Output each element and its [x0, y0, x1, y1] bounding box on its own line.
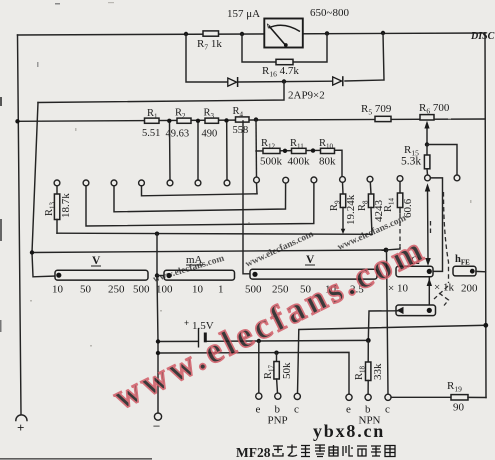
scan artifacts: [0, 458, 152, 459]
wire NPN c to R19: [391, 396, 451, 398]
wire R19 to right border: [468, 396, 486, 398]
svg-text:157 μA: 157 μA: [227, 8, 260, 20]
node meter left junction: [184, 32, 188, 36]
contact circle 4: [139, 180, 145, 186]
svg-text:650~800: 650~800: [310, 7, 349, 19]
svg-text:18.7k: 18.7k: [60, 193, 72, 218]
svg-text:+: +: [184, 318, 189, 328]
contact circle 5: [167, 180, 173, 186]
node R2-R3 junction: [196, 119, 200, 123]
terminal NPN e: [346, 394, 352, 400]
node battery rail left: [156, 339, 160, 343]
contact circle wiper: [425, 175, 431, 181]
svg-text:250: 250: [108, 284, 125, 296]
svg-text:+: +: [17, 420, 24, 435]
svg-text:50: 50: [80, 284, 92, 296]
wire bus C contact2 to contact10: [86, 183, 314, 226]
svg-text:558: 558: [233, 125, 249, 136]
svg-text:R4: R4: [233, 106, 244, 119]
node diode center junction: [282, 79, 286, 83]
node bus D x157 junction: [155, 232, 159, 236]
node bars link junction: [155, 273, 159, 277]
svg-text:33k: 33k: [372, 363, 384, 380]
wire wiper to contact S: [427, 145, 457, 176]
wire R6 wiper arm: [426, 125, 428, 145]
resistor R5: [375, 116, 391, 121]
svg-text:10: 10: [192, 284, 204, 296]
switch bar ohm: [396, 266, 433, 276]
resistor R10: [321, 148, 335, 153]
contact circle right column: [454, 175, 460, 181]
switch bar hFE: [453, 266, 476, 276]
svg-text:ybx8.cn: ybx8.cn: [313, 421, 385, 441]
terminal plus jack: [16, 415, 27, 421]
svg-text:10: 10: [52, 284, 64, 296]
svg-text:500k: 500k: [260, 156, 283, 168]
wire bus B contact3 to contact9: [114, 183, 286, 212]
battery BT 1.5V: [198, 328, 200, 348]
svg-text:www.elecfans.com: www.elecfans.com: [244, 229, 315, 269]
svg-text:R9: R9: [329, 200, 342, 211]
resistor R12: [263, 148, 280, 153]
svg-text:c: c: [294, 404, 299, 416]
contact circle 12: [367, 176, 373, 182]
resistor R14 60.6: [399, 182, 401, 194]
svg-text:R1: R1: [147, 108, 158, 121]
wire 2AP9 lower bus: [38, 82, 284, 103]
meter M 157uA: [264, 19, 303, 48]
resistor R19 90: [451, 395, 468, 400]
resistor R4: [236, 117, 250, 122]
svg-text:R18: R18: [354, 365, 367, 380]
resistor R1: [145, 118, 160, 123]
terminal NPN c: [385, 394, 391, 400]
svg-text:V: V: [92, 255, 101, 267]
wire contact6 stem: [197, 124, 199, 181]
svg-text:19.24k: 19.24k: [345, 194, 357, 225]
node R12-R11 junction: [283, 149, 287, 153]
svg-text:PNP: PNP: [268, 415, 288, 427]
contact circle 6: [195, 180, 201, 186]
svg-text:R7 1k: R7 1k: [197, 38, 222, 52]
svg-text:90: 90: [453, 402, 465, 414]
terminal PNP c: [294, 393, 300, 399]
resistor R6 potentiometer: [420, 115, 434, 120]
wire PNP e stem: [258, 341, 260, 393]
svg-text:R11: R11: [290, 138, 304, 151]
svg-text:c: c: [385, 404, 390, 416]
svg-text:5.3k: 5.3k: [401, 156, 421, 168]
node right border junction: [483, 323, 488, 328]
node x1k R18 junction: [366, 338, 371, 343]
node wiper junction: [425, 142, 429, 146]
wire hFE to right border: [476, 270, 486, 272]
resistor R7: [203, 31, 219, 36]
diode D1 2AP9: [228, 77, 238, 87]
svg-text:R8: R8: [357, 200, 370, 211]
resistor R8 4243: [369, 182, 372, 194]
resistor R17 50k: [276, 353, 278, 362]
resistor R3: [205, 118, 219, 123]
svg-text:MF28: MF28: [236, 445, 271, 460]
contact circle 11: [340, 177, 346, 183]
svg-text:490: 490: [202, 129, 218, 140]
svg-text:× 10: × 10: [388, 283, 408, 295]
wire x1k bar feed: [368, 311, 397, 341]
contact circle 7: [224, 180, 230, 186]
wire NPN c stem tall: [387, 251, 389, 395]
node bus E left junction: [30, 250, 34, 254]
node PNP e junction: [257, 339, 261, 343]
resistor R13 18.7k: [56, 186, 58, 194]
wire battery rail: [158, 340, 198, 342]
wire contact5 stem: [169, 124, 172, 181]
svg-text:R12: R12: [261, 138, 276, 151]
dashed switch linkage middle: [434, 286, 448, 299]
node chain left junction: [15, 119, 19, 123]
svg-text:500: 500: [133, 284, 150, 296]
resistor R9 19.24k: [342, 182, 345, 194]
resistor R18 33k: [367, 340, 369, 362]
svg-text:e: e: [256, 404, 261, 416]
wire bus D R13 to R8: [57, 233, 372, 234]
resistor R2: [177, 118, 191, 123]
contact circle 8: [254, 177, 260, 183]
wire contact7 stem: [226, 123, 228, 180]
wire NPN e stem: [348, 394, 350, 397]
caption CJK glyph blocks: [273, 445, 395, 457]
wire right border: [485, 33, 486, 398]
wire R4 to switch vertical: [255, 120, 258, 177]
contact circle 10: [311, 177, 317, 183]
terminal PNP b: [275, 393, 281, 399]
switch bar mA: [164, 270, 235, 280]
node R17 top junction: [274, 351, 278, 355]
node R11-R10 junction: [311, 148, 315, 152]
svg-text:100: 100: [156, 284, 173, 296]
contact circle 9: [283, 177, 289, 183]
switch bar V right: [250, 269, 377, 279]
dashed switch linkage hook: [439, 293, 449, 306]
contact circle 2: [83, 180, 89, 186]
contact circle 3: [111, 180, 117, 186]
wire bars link to bar2: [157, 275, 166, 277]
contact circle 1: [54, 180, 60, 186]
wire lower rail y353: [158, 352, 349, 394]
terminal NPN b: [365, 394, 371, 400]
wire diode branch: [186, 34, 228, 82]
dashed switch linkage upper: [444, 192, 449, 283]
wire bus E: [32, 250, 386, 253]
resistor R11: [292, 148, 307, 153]
node R16 top junction: [325, 31, 329, 35]
node bus E right junction: [384, 248, 389, 253]
wire top rail: [18, 33, 486, 35]
wire bus E to R14 corner: [386, 247, 400, 250]
svg-text:R16 4.7k: R16 4.7k: [262, 65, 299, 79]
node R1-R2 junction: [167, 119, 171, 123]
svg-text:× 1k: × 1k: [434, 282, 454, 294]
contact circle 13: [397, 176, 403, 182]
svg-text:R3: R3: [204, 108, 215, 121]
wire wiper contact to ohm bar: [427, 190, 430, 259]
svg-text:R13: R13: [44, 201, 57, 216]
wire R16 shunt loop: [242, 34, 276, 62]
svg-text:R19: R19: [447, 380, 462, 394]
wire contact bend to ohm bar right: [431, 178, 443, 272]
wire x243 vertical to bar3: [243, 121, 252, 274]
svg-text:e: e: [346, 404, 351, 416]
svg-text:R2: R2: [175, 108, 186, 121]
node R4 right junction: [254, 117, 258, 121]
wire left border: [18, 35, 22, 414]
wire PNP c stem to upper rail: [298, 325, 486, 393]
wire R12 row rail: [256, 150, 342, 176]
wire bus A contact4 to contact8: [142, 186, 258, 196]
dashed stub: [430, 221, 432, 233]
svg-text:200: 200: [461, 283, 478, 295]
switch bar V left: [55, 270, 148, 280]
resistor R16: [276, 59, 293, 64]
terminal PNP e: [256, 393, 262, 399]
svg-text:5.51: 5.51: [142, 128, 160, 139]
svg-text:–: –: [153, 418, 161, 432]
wire x1k wiper link: [428, 278, 430, 305]
svg-text:R17: R17: [263, 364, 276, 379]
svg-text:V: V: [306, 254, 315, 266]
svg-text:500: 500: [245, 284, 262, 296]
wire main range chain rail: [18, 119, 486, 121]
terminal minus jack: [154, 413, 161, 420]
svg-text:2AP9×2: 2AP9×2: [288, 90, 325, 102]
svg-text:1: 1: [218, 284, 224, 296]
svg-text:400k: 400k: [288, 156, 311, 168]
svg-text:R10: R10: [319, 138, 334, 151]
node R3-R4 junction: [224, 118, 228, 122]
svg-text:80k: 80k: [319, 156, 336, 168]
wire left inner vertical: [32, 103, 56, 277]
resistor R15 5.3k: [426, 145, 428, 156]
node diode right top junction: [381, 31, 385, 35]
svg-text:hFE: hFE: [455, 254, 470, 267]
svg-text:50k: 50k: [281, 362, 293, 379]
wire x157 vertical to battery and minus jack: [156, 234, 158, 276]
switch bar x1k: [396, 305, 436, 316]
node meter shunt left junction: [240, 32, 244, 36]
svg-text:R6 700: R6 700: [419, 102, 450, 116]
svg-text:DISC: DISC: [470, 31, 495, 42]
diode D2 2AP9: [333, 76, 343, 86]
svg-text:R5 709: R5 709: [361, 103, 392, 117]
node lower rail left: [156, 351, 160, 355]
